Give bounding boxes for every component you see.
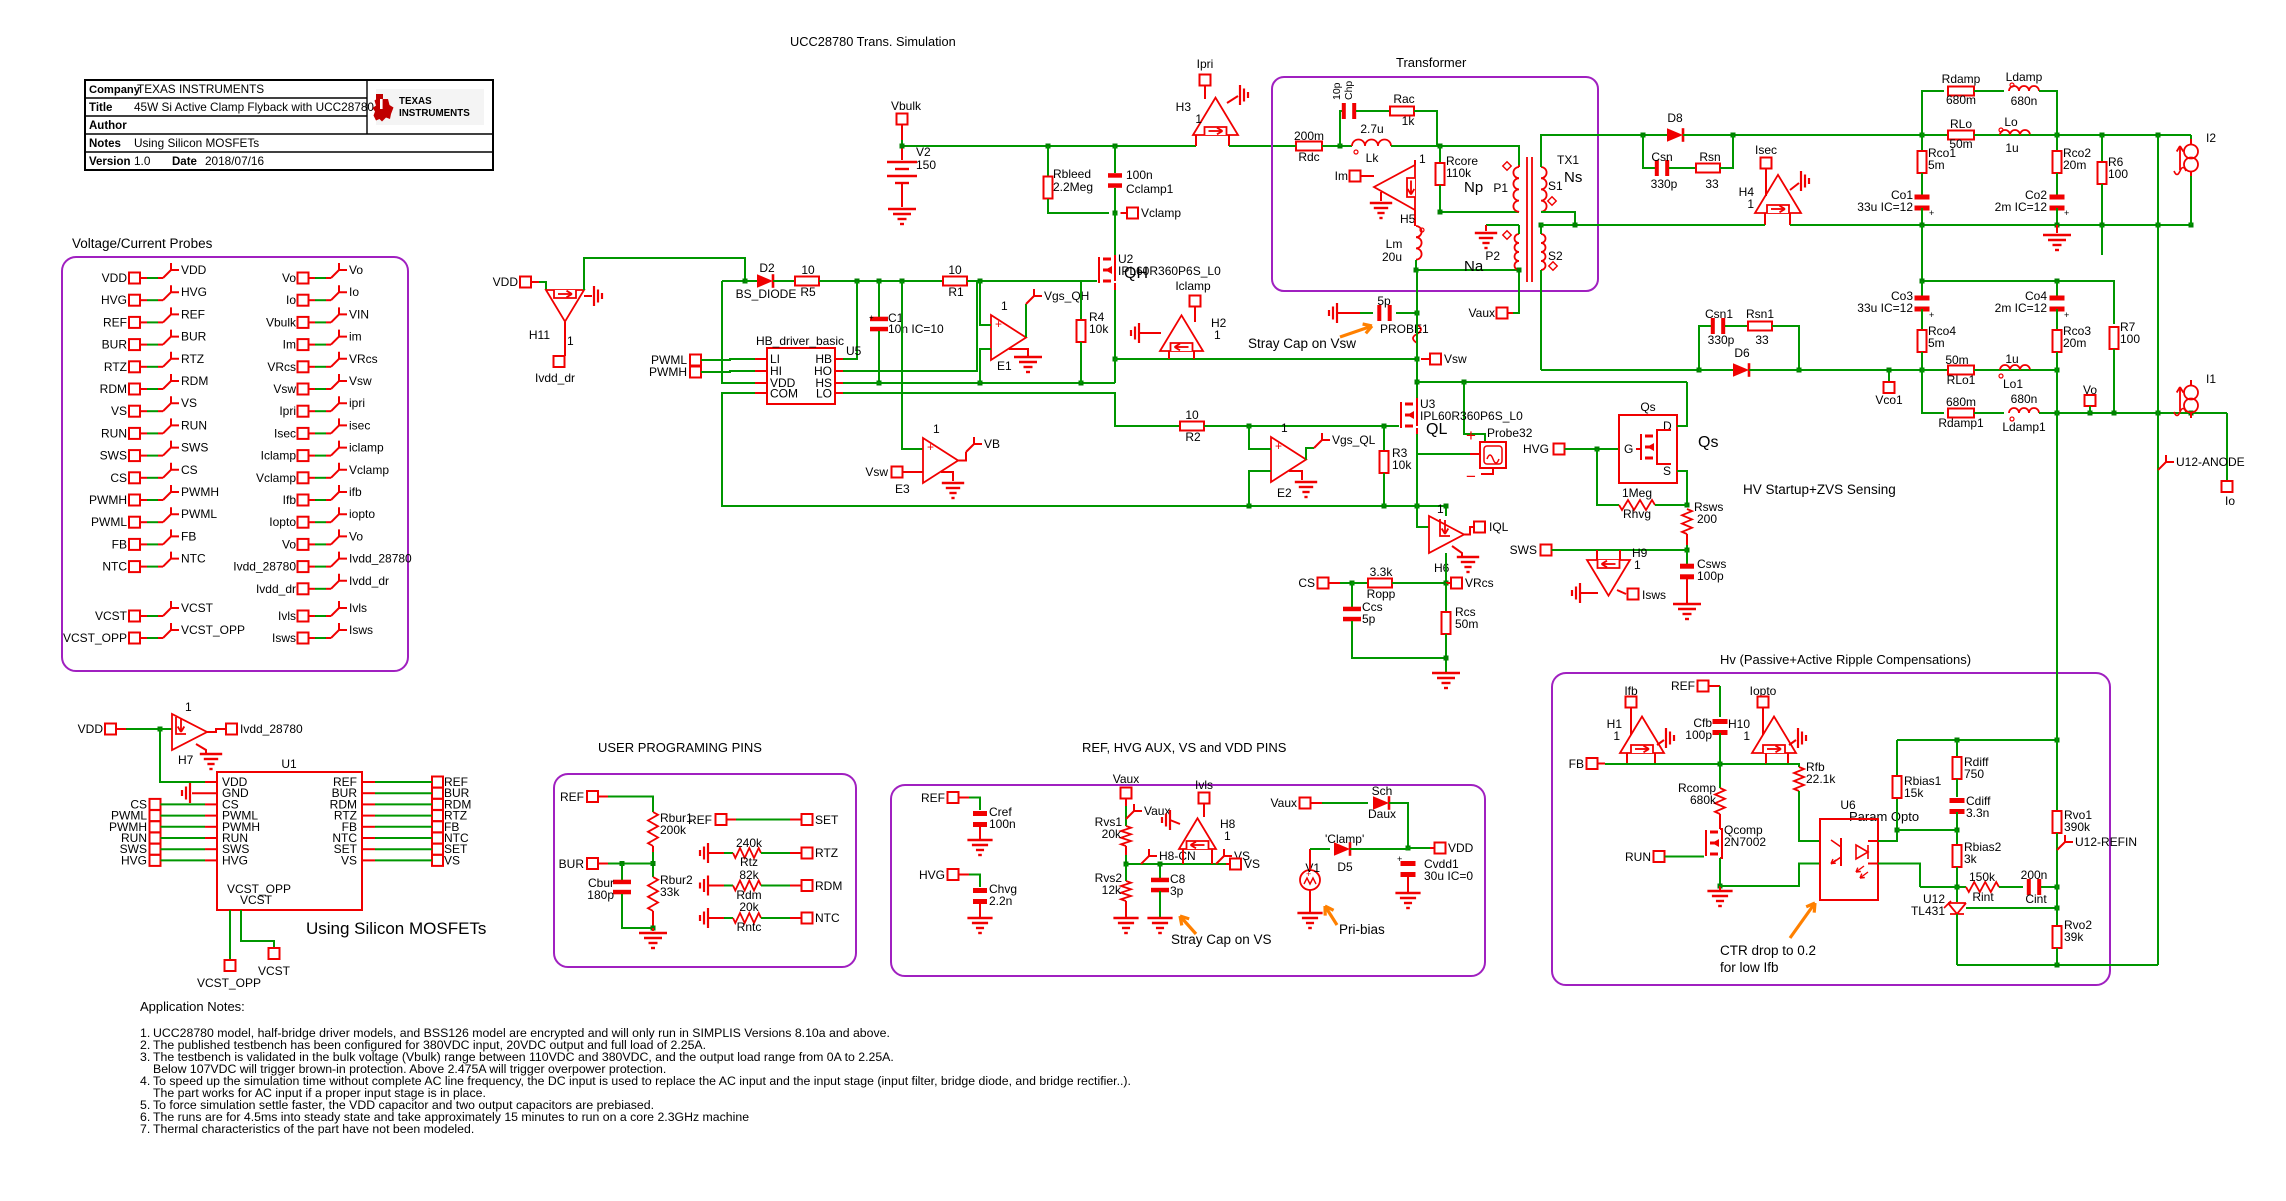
ground at P2 bbox=[1475, 233, 1497, 248]
resistor R2 10 bbox=[1180, 422, 1204, 431]
svg-text:Vo: Vo bbox=[282, 271, 296, 285]
ground at H11 bbox=[584, 295, 592, 297]
resistor Rbur2 33k bbox=[648, 877, 658, 911]
resistor Rsn1 33 bbox=[1725, 325, 1748, 327]
svg-text:REF: REF bbox=[560, 790, 584, 804]
svg-text:Isws: Isws bbox=[349, 623, 373, 637]
wire QL drain bbox=[1416, 398, 1418, 404]
svg-text:Np: Np bbox=[1464, 179, 1483, 196]
svg-text:680m: 680m bbox=[1946, 93, 1976, 107]
Voltage/Current Probes group box bbox=[62, 257, 408, 671]
svg-text:1: 1 bbox=[1195, 112, 1202, 126]
resistor R3 10k bbox=[1383, 426, 1385, 453]
wire Vo rail bbox=[2039, 412, 2227, 414]
terminals REF BUR RDM RTZ FB NTC SET VS bbox=[432, 777, 443, 788]
svg-text:Rntc: Rntc bbox=[737, 920, 762, 934]
svg-text:S: S bbox=[1663, 464, 1671, 478]
wire QL source bbox=[1416, 428, 1418, 434]
wire TL431 ref bbox=[1966, 907, 2057, 909]
svg-text:'Clamp': 'Clamp' bbox=[1325, 832, 1364, 846]
svg-text:BUR: BUR bbox=[181, 330, 207, 344]
wire to Qs drain bbox=[1417, 381, 1687, 383]
svg-text:D2: D2 bbox=[759, 261, 775, 275]
terminal Ivdd_28780 bbox=[207, 729, 226, 732]
ground at Rvs2 bbox=[1113, 918, 1138, 933]
current sense source H5 (Im) bbox=[1374, 165, 1415, 210]
wire QH drain bbox=[1114, 255, 1116, 259]
wire HS node to Vsw bbox=[1115, 358, 1417, 360]
svg-text:Vclamp: Vclamp bbox=[1141, 206, 1181, 220]
resistor Rco3 20m bbox=[2056, 309, 2058, 331]
svg-text:Vgs_QH: Vgs_QH bbox=[1044, 289, 1089, 303]
svg-text:100n: 100n bbox=[1126, 168, 1153, 182]
mosfet U2 QH IPL60R360P6S_L0 bbox=[1095, 280, 1097, 282]
inductor Lo 1u bbox=[2000, 130, 2030, 135]
terminal NTC bbox=[802, 913, 813, 924]
current source I1 bbox=[2190, 380, 2192, 386]
svg-text:PWML: PWML bbox=[91, 515, 127, 529]
svg-text:Rtz: Rtz bbox=[740, 855, 758, 869]
svg-text:20k: 20k bbox=[739, 900, 759, 914]
svg-text:+: + bbox=[1929, 208, 1934, 218]
capacitor stray 5p on Vsw bbox=[1329, 303, 1337, 323]
ground at Csws bbox=[1673, 604, 1701, 619]
svg-text:2.2n: 2.2n bbox=[989, 894, 1012, 908]
svg-text:10: 10 bbox=[948, 263, 962, 277]
svg-text:1: 1 bbox=[1001, 299, 1008, 313]
svg-text:Rdamp: Rdamp bbox=[1942, 72, 1981, 86]
capacitor Chp 10p bbox=[1340, 111, 1343, 146]
svg-text:680n: 680n bbox=[2011, 392, 2038, 406]
resistor Rhvg 1Meg bbox=[1597, 449, 1619, 505]
svg-text:VS: VS bbox=[111, 404, 127, 418]
terminal Vo bbox=[2085, 395, 2096, 406]
ground at Rcs bbox=[1432, 673, 1460, 688]
svg-text:1: 1 bbox=[1224, 829, 1231, 843]
svg-text:2.7u: 2.7u bbox=[1360, 122, 1383, 136]
resistor Rbias1 15k bbox=[1896, 740, 1898, 776]
probe flag VB bbox=[958, 452, 966, 461]
wire opto cathode rail bbox=[1720, 864, 1820, 887]
svg-text:Iclamp: Iclamp bbox=[261, 449, 297, 463]
svg-text:Ivdd_dr: Ivdd_dr bbox=[256, 582, 296, 596]
ground at H8 bbox=[1162, 810, 1170, 830]
svg-text:100p: 100p bbox=[1685, 728, 1712, 742]
svg-text:Version: Version bbox=[89, 156, 131, 168]
svg-text:RLo1: RLo1 bbox=[1947, 373, 1976, 387]
wire S2 bottom down bbox=[1540, 270, 1542, 370]
ground at H7 bbox=[196, 744, 206, 753]
svg-text:Rbleed: Rbleed bbox=[1053, 167, 1091, 181]
terminal IQL bbox=[1464, 527, 1474, 535]
wire Np bottom rail bbox=[1440, 211, 1519, 213]
svg-text:+: + bbox=[1466, 426, 1476, 445]
wire Vbulk bus rail bbox=[902, 145, 1196, 147]
svg-text:QL: QL bbox=[1426, 421, 1447, 438]
svg-text:Ivls: Ivls bbox=[1195, 778, 1213, 792]
ccvs H8 bbox=[1179, 818, 1216, 849]
svg-text:1: 1 bbox=[1214, 328, 1221, 342]
resistor Rco2 20m bbox=[2056, 135, 2058, 152]
USER PROGRAMING PINS group box bbox=[554, 774, 856, 967]
current sense source H4 (Isec) bbox=[1755, 175, 1801, 213]
svg-text:Using Silicon MOSFETs: Using Silicon MOSFETs bbox=[306, 919, 486, 938]
svg-text:REF: REF bbox=[103, 315, 127, 329]
svg-text:QH: QH bbox=[1124, 265, 1148, 282]
terminal VS bbox=[1226, 863, 1230, 865]
resistor Rint 150k bbox=[1966, 882, 1999, 892]
svg-text:RDM: RDM bbox=[815, 879, 842, 893]
wire S2 to lower rail bbox=[1541, 369, 1699, 371]
svg-text:1: 1 bbox=[1281, 421, 1288, 435]
wire S1 top to secondary rail bbox=[1541, 135, 1643, 167]
svg-text:VS: VS bbox=[444, 853, 460, 867]
svg-text:Date: Date bbox=[172, 156, 197, 168]
wire FB rail to Rfb bbox=[1766, 764, 1799, 767]
ground at Chvg bbox=[967, 918, 992, 933]
svg-text:Ldamp: Ldamp bbox=[2006, 70, 2043, 84]
current sense source H11 (Ivdd_dr) bbox=[546, 290, 584, 322]
transformer TX1 winding S2 bbox=[1541, 234, 1546, 270]
ground below V2 bbox=[888, 209, 916, 224]
wire LO to R2 bbox=[843, 393, 1179, 426]
wire lower output rail bbox=[1889, 369, 2057, 371]
svg-text:5m: 5m bbox=[1928, 336, 1945, 350]
mosfet U3 QL IPL60R360P6S_L0 bbox=[1401, 402, 1417, 428]
probe flag VS bbox=[1216, 849, 1232, 864]
resistor R6 100 bbox=[2101, 135, 2103, 162]
svg-text:680k: 680k bbox=[1690, 793, 1717, 807]
ground at H2 bbox=[1131, 323, 1139, 343]
svg-text:Param Opto: Param Opto bbox=[1849, 809, 1919, 824]
svg-text:Iopto: Iopto bbox=[269, 515, 296, 529]
resistor R7 100 bbox=[2110, 327, 2119, 349]
capacitor Co3 33u IC=12 bbox=[1921, 281, 1923, 297]
svg-text:1: 1 bbox=[567, 334, 574, 348]
svg-text:TX1: TX1 bbox=[1557, 153, 1579, 167]
capacitor Csws 100p bbox=[1686, 550, 1688, 565]
wire H11 output to D2 rail bbox=[584, 258, 745, 290]
wire QH source to HS node bbox=[1114, 283, 1116, 290]
svg-text:REF: REF bbox=[1671, 679, 1695, 693]
svg-text:Thermal characteristics of the: Thermal characteristics of the part have… bbox=[153, 1122, 474, 1136]
svg-text:1k: 1k bbox=[1402, 114, 1416, 128]
wire top rail Hv bbox=[1897, 739, 2057, 741]
terminal Vaux bbox=[1513, 270, 1519, 313]
svg-text:D5: D5 bbox=[1337, 860, 1353, 874]
svg-text:330p: 330p bbox=[1708, 333, 1735, 347]
voltage source V2 150V battery bbox=[901, 146, 903, 160]
wire Probe32 left pin bbox=[1470, 453, 1480, 455]
svg-text:Vsw: Vsw bbox=[1444, 352, 1467, 366]
svg-text:Rhvg: Rhvg bbox=[1623, 507, 1651, 521]
svg-text:10: 10 bbox=[1185, 408, 1199, 422]
svg-text:+: + bbox=[1275, 439, 1282, 453]
svg-text:TL431: TL431 bbox=[1911, 904, 1945, 918]
svg-text:TEXAS: TEXAS bbox=[399, 96, 432, 107]
svg-text:3.3k: 3.3k bbox=[1370, 565, 1394, 579]
svg-text:VB: VB bbox=[984, 437, 1000, 451]
resistor Rcore 110k bbox=[1439, 146, 1441, 164]
svg-text:iopto: iopto bbox=[349, 507, 375, 521]
wire bus to transformer bbox=[1229, 145, 1287, 147]
svg-text:PROBE1: PROBE1 bbox=[1380, 322, 1429, 336]
resistor Rsn 33 bbox=[1669, 167, 1696, 169]
wire Qs source bbox=[1677, 471, 1687, 505]
terminal RTZ bbox=[802, 848, 813, 859]
wire TL431 column bbox=[1956, 887, 1958, 902]
svg-text:Company: Company bbox=[89, 84, 141, 96]
svg-text:10p: 10p bbox=[1331, 82, 1343, 100]
svg-text:82k: 82k bbox=[739, 868, 759, 882]
svg-text:TEXAS INSTRUMENTS: TEXAS INSTRUMENTS bbox=[137, 82, 264, 96]
svg-text:CTR drop to 0.2: CTR drop to 0.2 bbox=[1720, 943, 1816, 958]
svg-text:50m: 50m bbox=[1455, 617, 1478, 631]
wire HVG probe drop bbox=[1464, 382, 1485, 442]
svg-text:Vbulk: Vbulk bbox=[891, 99, 922, 113]
vcvs E2 bbox=[1271, 437, 1306, 482]
svg-text:22.1k: 22.1k bbox=[1806, 772, 1836, 786]
svg-text:VIN: VIN bbox=[349, 307, 369, 321]
svg-text:1Meg: 1Meg bbox=[1622, 486, 1652, 500]
svg-text:im: im bbox=[349, 330, 362, 344]
wire Co3 bank top rail bbox=[1921, 225, 1923, 281]
svg-text:100: 100 bbox=[2108, 167, 2128, 181]
svg-text:Sch: Sch bbox=[1372, 784, 1393, 798]
wire lower damp rail bbox=[1922, 370, 1944, 413]
wire D2 left column bbox=[722, 280, 745, 282]
wire Qs drain bbox=[1677, 382, 1687, 426]
svg-text:USER PROGRAMING PINS: USER PROGRAMING PINS bbox=[598, 740, 762, 755]
capacitor Cint 200n bbox=[2027, 879, 2031, 895]
svg-text:Qs: Qs bbox=[1698, 434, 1718, 451]
REF HVG AUX VS and VDD PINS group box bbox=[891, 785, 1485, 976]
svg-text:1: 1 bbox=[1419, 152, 1426, 166]
resistor Rco4 5m bbox=[1921, 309, 1923, 331]
svg-text:VRcs: VRcs bbox=[1465, 576, 1494, 590]
capacitor Cfb 100p bbox=[1713, 719, 1728, 724]
svg-text:1: 1 bbox=[1613, 729, 1620, 743]
terminal HVG bbox=[1554, 444, 1565, 455]
svg-text:1: 1 bbox=[1747, 197, 1754, 211]
svg-text:2m IC=12: 2m IC=12 bbox=[1995, 301, 2048, 315]
svg-text:1: 1 bbox=[1743, 729, 1750, 743]
resistor Rtz 240k with ground bbox=[700, 843, 708, 863]
svg-text:NTC: NTC bbox=[815, 911, 840, 925]
svg-text:VCST: VCST bbox=[258, 964, 291, 978]
ground at V1 bbox=[1309, 890, 1311, 912]
svg-text:Vsw: Vsw bbox=[349, 374, 372, 388]
wire Rint rail bbox=[1920, 886, 1957, 888]
svg-text:5p: 5p bbox=[1362, 612, 1376, 626]
orange arrow stray cap Vsw bbox=[1340, 326, 1372, 337]
svg-text:E3: E3 bbox=[895, 482, 910, 496]
svg-text:Lo: Lo bbox=[2004, 115, 2018, 129]
svg-text:10k: 10k bbox=[1392, 458, 1412, 472]
svg-text:+: + bbox=[1929, 310, 1934, 320]
svg-text:R1: R1 bbox=[948, 285, 964, 299]
transformer TX1 winding P2 bbox=[1515, 234, 1519, 270]
svg-text:Using Silicon MOSFETs: Using Silicon MOSFETs bbox=[134, 136, 259, 150]
svg-text:Rsn1: Rsn1 bbox=[1746, 307, 1774, 321]
probe flag Vaux bbox=[1126, 804, 1142, 819]
svg-text:VCST_OPP: VCST_OPP bbox=[181, 623, 245, 637]
svg-text:Chp: Chp bbox=[1343, 81, 1355, 100]
svg-text:3.: 3. bbox=[140, 1050, 150, 1064]
mosfet Qcomp 2N7002 bbox=[1719, 814, 1721, 829]
resistor Rfb 22.1k bbox=[1794, 767, 1804, 791]
svg-text:Ivdd_28780: Ivdd_28780 bbox=[349, 552, 412, 566]
svg-text:Ipri: Ipri bbox=[279, 404, 296, 418]
svg-text:VS: VS bbox=[181, 396, 197, 410]
svg-text:Probe32: Probe32 bbox=[1487, 426, 1533, 440]
wire Vbulk to bus bbox=[901, 125, 903, 141]
svg-text:150: 150 bbox=[916, 158, 936, 172]
svg-text:Application Notes:: Application Notes: bbox=[140, 999, 245, 1014]
svg-text:iclamp: iclamp bbox=[349, 441, 384, 455]
svg-text:D8: D8 bbox=[1667, 111, 1683, 125]
svg-text:RTZ: RTZ bbox=[104, 360, 127, 374]
capacitor Ccs 5p bbox=[1351, 583, 1353, 607]
svg-text:SWS: SWS bbox=[1510, 543, 1537, 557]
wire co3 rail bbox=[1922, 281, 2114, 324]
svg-text:2.2Meg: 2.2Meg bbox=[1053, 180, 1093, 194]
svg-text:P1: P1 bbox=[1493, 181, 1508, 195]
svg-text:750: 750 bbox=[1964, 767, 1984, 781]
svg-text:Ivdd_28780: Ivdd_28780 bbox=[233, 560, 296, 574]
svg-text:RUN: RUN bbox=[181, 418, 207, 432]
wire E2 plus bbox=[1249, 426, 1271, 449]
svg-text:Rdamp1: Rdamp1 bbox=[1938, 416, 1984, 430]
svg-text:U12-ANODE: U12-ANODE bbox=[2176, 455, 2245, 469]
terminal RDM bbox=[802, 880, 813, 891]
wire output bottom rail bbox=[1922, 224, 2191, 226]
svg-text:CS: CS bbox=[110, 471, 127, 485]
svg-text:Im: Im bbox=[283, 338, 296, 352]
svg-text:I1: I1 bbox=[2206, 372, 2216, 386]
ground at U1 GND pin bbox=[192, 792, 217, 794]
svg-text:U12-REFIN: U12-REFIN bbox=[2075, 835, 2137, 849]
svg-text:20u: 20u bbox=[1382, 250, 1402, 264]
svg-text:Ropp: Ropp bbox=[1367, 587, 1396, 601]
svg-text:7.: 7. bbox=[140, 1122, 150, 1136]
probe flag Vgs_QH bbox=[1025, 304, 1027, 337]
svg-text:RLo: RLo bbox=[1950, 117, 1972, 131]
resistor Rcs 50m bbox=[1445, 583, 1447, 613]
svg-text:Vo: Vo bbox=[349, 263, 363, 277]
svg-text:Ivdd_dr: Ivdd_dr bbox=[535, 371, 575, 385]
ccvs H9 (Isws) bbox=[1587, 560, 1630, 596]
svg-text:Vgs_QL: Vgs_QL bbox=[1332, 433, 1376, 447]
inductor Lk 2.7u bbox=[1352, 140, 1391, 146]
svg-text:VS: VS bbox=[1244, 857, 1260, 871]
shunt regulator U12 TL431 bbox=[1948, 903, 1966, 914]
svg-text:V1: V1 bbox=[1305, 861, 1320, 875]
orange arrow Pri-bias bbox=[1325, 906, 1337, 925]
svg-text:100: 100 bbox=[2120, 332, 2140, 346]
svg-text:BUR: BUR bbox=[559, 857, 585, 871]
svg-text:3p: 3p bbox=[1170, 884, 1184, 898]
wire Qcomp source to ground rail bbox=[1719, 858, 1721, 886]
wire Rvo2 column bbox=[2056, 887, 2058, 908]
svg-text:ipri: ipri bbox=[349, 396, 365, 410]
probe flag Vgs_QL bbox=[1306, 448, 1314, 460]
diode D2 BS_DIODE bbox=[745, 280, 757, 282]
wire to Io bbox=[2226, 413, 2228, 481]
wire VS mid rail bbox=[1126, 863, 1235, 865]
capacitor Chvg 2.2n bbox=[973, 888, 987, 893]
ground at Qcomp bbox=[1719, 886, 1721, 890]
ground at H4 bbox=[1790, 183, 1799, 190]
capacitor Co1 33u IC=12 bbox=[1915, 195, 1930, 200]
resistor R5 10 bbox=[795, 277, 819, 286]
ground at E2 bbox=[1289, 471, 1302, 480]
capacitor Csn 330p bbox=[1643, 135, 1655, 168]
ground at E3 bbox=[941, 472, 953, 481]
resistor RLo1 50m bbox=[1922, 369, 1940, 371]
svg-text:VCST_OPP: VCST_OPP bbox=[197, 976, 261, 990]
ground at Cvdd1 bbox=[1395, 893, 1420, 908]
transformer core bbox=[1526, 157, 1528, 282]
probe PROBE1 bead bbox=[1413, 325, 1421, 343]
svg-text:IQL: IQL bbox=[1489, 520, 1509, 534]
svg-text:Vclamp: Vclamp bbox=[256, 471, 296, 485]
Hv ripple compensation group box bbox=[1552, 673, 2110, 985]
wire H6 to VRcs rail bbox=[1445, 553, 1447, 583]
ground at H5 bbox=[1380, 192, 1382, 201]
ground at H3 bbox=[1227, 96, 1238, 103]
terminal SET bbox=[802, 814, 813, 825]
current sense source H3 (Ipri) bbox=[1193, 98, 1238, 135]
resistor R4 10k bbox=[1080, 281, 1082, 322]
svg-text:VCST: VCST bbox=[95, 609, 128, 623]
svg-text:VRcs: VRcs bbox=[349, 352, 378, 366]
svg-text:33k: 33k bbox=[660, 885, 680, 899]
svg-text:Isec: Isec bbox=[274, 426, 296, 440]
terminal Ivdd_dr bbox=[564, 322, 566, 356]
svg-text:33: 33 bbox=[1705, 177, 1719, 191]
svg-text:240k: 240k bbox=[736, 836, 763, 850]
resistor Rac 1k bbox=[1390, 107, 1414, 116]
svg-text:+: + bbox=[1397, 854, 1402, 864]
svg-text:200m: 200m bbox=[1294, 129, 1324, 143]
svg-text:100p: 100p bbox=[1697, 569, 1724, 583]
capacitor C8 3p bbox=[1159, 864, 1161, 879]
svg-text:−: − bbox=[1466, 467, 1476, 486]
svg-text:REF: REF bbox=[688, 813, 712, 827]
svg-text:3.3n: 3.3n bbox=[1966, 806, 1989, 820]
svg-text:HVG: HVG bbox=[1523, 442, 1549, 456]
ground at H9 bbox=[1572, 583, 1580, 603]
svg-text:Vsw: Vsw bbox=[865, 465, 888, 479]
svg-text:Vsw: Vsw bbox=[273, 382, 296, 396]
svg-text:680n: 680n bbox=[2011, 94, 2038, 108]
svg-text:39k: 39k bbox=[2064, 930, 2084, 944]
svg-text:Vo: Vo bbox=[349, 529, 363, 543]
ground at H6 bbox=[1452, 546, 1462, 556]
terminal VCST bbox=[269, 948, 280, 959]
resistor Rdiff 750 bbox=[1956, 740, 1958, 757]
svg-text:P2: P2 bbox=[1485, 249, 1500, 263]
diode Daux Sch bbox=[1373, 796, 1389, 810]
wire E2 minus bbox=[1249, 471, 1271, 506]
wire bottom rail Hv bbox=[1957, 964, 2158, 966]
svg-text:Io: Io bbox=[349, 285, 359, 299]
svg-text:RUN: RUN bbox=[1625, 850, 1651, 864]
svg-text:Vaux: Vaux bbox=[1469, 306, 1495, 320]
svg-text:HVG: HVG bbox=[101, 293, 127, 307]
capacitor Cvdd1 30u IC=0 bbox=[1401, 861, 1416, 866]
